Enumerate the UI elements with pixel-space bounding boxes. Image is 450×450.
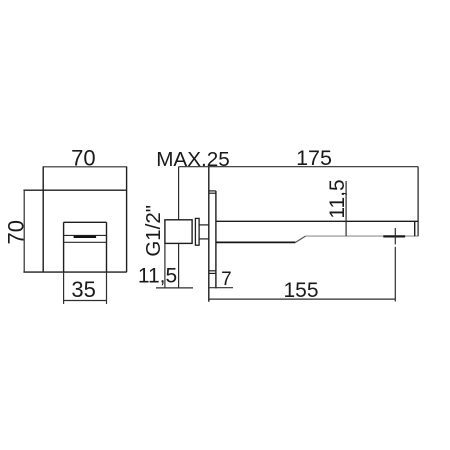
front view: spout underside line [64,241,107,243]
svg-text:G1/2": G1/2" [142,205,165,257]
spout tube bottom edge (thin section) [306,235,419,237]
dimension 7: line [209,287,233,289]
spout underside slant [295,236,305,242]
front view: spout body rectangle [64,222,107,272]
aerator centerline (dashed) [394,228,396,302]
aerator outlet bar [383,235,405,237]
svg-text:MAX.25: MAX.25 [156,148,230,171]
dimension 35: extension lines [64,272,107,304]
spout end inner line [414,221,416,236]
side view: top dimension line (MAX.25 + 175) [179,166,419,168]
spout tube bottom edge (thick section) [216,241,296,243]
wall plate top/bottom and cap lines [209,191,216,274]
neck between flange and plate [199,225,209,239]
dimension 70 top: line [43,166,126,168]
svg-text:155: 155 [283,279,318,302]
svg-text:11,5: 11,5 [138,264,177,287]
svg-text:7: 7 [221,269,232,290]
svg-text:70: 70 [4,220,29,244]
pipe end extension line down [164,243,166,288]
G1/2 threaded pipe [165,220,192,244]
dimension 35: line [64,300,107,302]
svg-text:175: 175 [296,146,332,170]
svg-text:35: 35 [71,277,95,302]
front view: wall plate square 70x70 [23,166,126,272]
front view: spout lip line [64,234,107,236]
spout end face / 175 extension line [417,167,419,237]
dimension 155: line [209,298,395,300]
wall plate left edge + extension down to 155 dim [208,167,210,302]
dimension 70 left: line [23,190,25,272]
wall plate right edge + extension down [215,191,217,289]
extension line at max wall depth [178,167,180,289]
dimension 11,5 right: leader line [345,181,347,236]
dimension 11,5 bottom: line [156,287,193,289]
front view: water slot (thick bar) [74,236,97,238]
pipe flange/nut [195,218,199,245]
svg-text:11,5: 11,5 [326,179,349,218]
svg-text:70: 70 [71,145,95,170]
spout tube top edge [216,220,418,222]
